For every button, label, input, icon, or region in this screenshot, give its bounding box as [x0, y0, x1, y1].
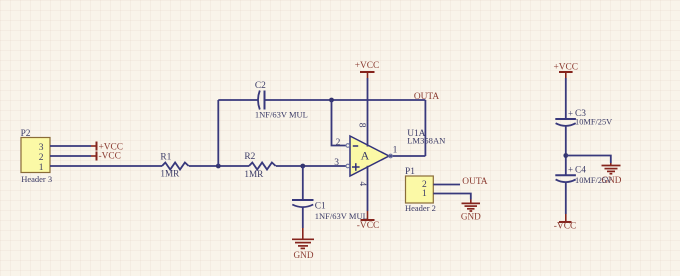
svg-text:GND: GND [294, 250, 314, 260]
ground at P1 [461, 200, 481, 222]
wire P1 pin1 to ground [433, 194, 471, 200]
resistor R2 [244, 152, 275, 179]
svg-text:P1: P1 [405, 167, 415, 177]
svg-text:10MF/25V: 10MF/25V [575, 176, 612, 185]
svg-text:10MF/25V: 10MF/25V [575, 117, 612, 126]
svg-text:1MR: 1MR [160, 168, 180, 178]
wire C1 to ground [302, 208, 304, 229]
power port +VCC at P2 [91, 142, 123, 153]
ground below C1 [292, 228, 314, 260]
capacitor C2 [255, 81, 308, 120]
svg-text:1: 1 [393, 146, 398, 156]
capacitor C1 [292, 200, 368, 221]
header P1 [405, 167, 436, 213]
svg-text:-VCC: -VCC [357, 221, 379, 231]
svg-text:8: 8 [356, 123, 366, 128]
svg-text:1NF/63V MUL: 1NF/63V MUL [255, 110, 308, 120]
wire down to output [424, 100, 426, 156]
svg-text:-VCC: -VCC [554, 222, 576, 232]
svg-text:OUTA: OUTA [462, 177, 488, 187]
wire C4 to -VCC [565, 183, 567, 214]
power port -VCC right rail [554, 214, 576, 232]
capacitor C4 [555, 164, 612, 185]
power port +VCC right rail [554, 63, 579, 79]
svg-text:OUTA: OUTA [414, 92, 440, 102]
junction at pin2 branch [329, 98, 334, 103]
power port +VCC at opamp [355, 61, 380, 78]
svg-text:+: + [568, 108, 573, 118]
ground right rail [601, 163, 621, 185]
svg-text:A: A [361, 149, 370, 163]
svg-text:R2: R2 [244, 152, 255, 162]
header P2 [21, 129, 53, 184]
wire +VCC to C3 [565, 78, 567, 119]
svg-text:4: 4 [357, 181, 367, 186]
wire P2 pin2 [50, 155, 91, 157]
resistor R1 [160, 153, 188, 179]
wire opamp pin4 down [367, 166, 369, 211]
wire opamp pin8 up [367, 78, 369, 147]
wire pin2 branch vertical [332, 100, 347, 146]
wire P2 pin3 [50, 145, 91, 147]
wire vertical up to C2 [217, 100, 219, 166]
svg-text:LM358AN: LM358AN [407, 136, 446, 146]
wire output [389, 155, 425, 157]
svg-text:Header 2: Header 2 [405, 203, 436, 213]
svg-text:2: 2 [336, 138, 341, 148]
power port -VCC at P2 [91, 151, 121, 161]
wire C3 to junction [565, 127, 567, 176]
wire P1 pin2 [433, 184, 460, 186]
op-amp U1 [334, 123, 397, 187]
svg-text:1MR: 1MR [244, 169, 264, 179]
svg-text:R1: R1 [160, 153, 171, 163]
capacitor C3 [555, 108, 612, 126]
svg-text:3: 3 [39, 143, 44, 153]
svg-text:1: 1 [39, 163, 44, 173]
wire to C2 left plate [218, 99, 257, 101]
svg-text:3: 3 [334, 158, 339, 168]
wire R2 right to opamp pin3 [276, 165, 346, 167]
power port -VCC at opamp [357, 211, 379, 231]
wire junction to right ground [566, 156, 611, 164]
junction right rail [563, 153, 568, 158]
wire down to C1 [302, 166, 304, 200]
wire R1 to R2 [189, 165, 249, 167]
svg-text:+: + [568, 164, 573, 174]
junction node at R1/R2 [216, 164, 221, 169]
svg-text:C4: C4 [575, 166, 586, 176]
svg-text:P2: P2 [21, 129, 31, 139]
svg-text:Header 3: Header 3 [21, 174, 52, 184]
svg-text:2: 2 [39, 153, 44, 163]
svg-text:-VCC: -VCC [99, 151, 121, 161]
svg-text:GND: GND [461, 212, 481, 222]
svg-text:+VCC: +VCC [355, 61, 380, 71]
svg-text:C2: C2 [255, 81, 266, 91]
wire P2 pin1 to R1 [50, 165, 162, 167]
svg-text:1: 1 [422, 189, 427, 199]
junction node at C1 [300, 164, 305, 169]
svg-text:1NF/63V MUL: 1NF/63V MUL [315, 211, 368, 221]
wire C2 to output corner [265, 99, 426, 101]
